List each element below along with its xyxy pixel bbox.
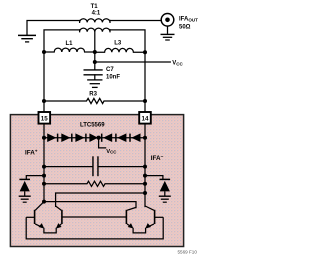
node pin15 collector junction [42,200,46,204]
node pin15 capacitor row junction [42,165,46,169]
svg-text:L3: L3 [114,41,122,47]
wire C7 to ground [94,75,96,80]
svg-text:IFAOUT: IFAOUT [179,17,198,23]
transformer T1 secondary winding [80,28,110,32]
diode D7 [130,133,141,142]
IC die block U1 LTC5569 (shaded area) [10,115,183,247]
node L3 right junction [143,50,147,54]
wire right ESD clamp stub [145,176,163,180]
wire VCC supply line [95,61,171,63]
wire T1 primary right lead to output connector [110,20,161,22]
node L1 left junction [42,50,46,54]
ground below connector [161,34,175,40]
diode D6 [116,133,127,142]
node pin14 cross line junction [143,191,147,195]
diode D3 [75,133,86,142]
svg-text:LTC5569: LTC5569 [80,123,105,129]
wire cross line from pin 15 with riser to QC collector [44,202,136,208]
wire T1 center tap down to C7 [94,32,96,70]
pin 14 box and number [139,112,151,124]
node pin15 ESD stub junction [42,174,46,178]
wire T1 primary left lead to ground [27,21,80,36]
svg-text:5569 F10: 5569 F10 [178,250,198,255]
node pin14 ESD stub junction [143,174,147,178]
wire left ESD clamp stub [26,176,44,180]
ground top-left [18,35,36,42]
wire internal capacitor row [44,166,92,168]
inductor L3 [95,48,145,52]
node center tap VCC junction [93,60,97,64]
node pin15 diode row junction [42,136,46,140]
svg-text:14: 14 [142,115,149,122]
connector J1 IFA OUT coax jack [161,13,174,33]
transformer T1 primary winding [80,19,110,23]
node diode chains mid VCC junction [97,136,101,140]
svg-text:50Ω: 50Ω [179,25,191,31]
svg-text:L1: L1 [66,41,74,47]
resistor R3 [44,98,145,103]
resistor internal row [44,181,145,186]
node pin14 capacitor row junction [143,165,147,169]
wire T1 secondary left lead down to pin 15 [44,30,80,112]
node pin14 resistor row junction [143,182,147,186]
ground below left ESD clamp [19,196,31,202]
transistor Q2 left-inner [56,206,62,227]
diode D8 ESD clamp left [19,179,30,196]
wire ESD diode row [44,137,145,139]
svg-text:C7: C7 [106,67,114,73]
node pin14 diode row junction [143,136,147,140]
svg-text:T1: T1 [91,4,99,10]
svg-text:10nF: 10nF [106,74,120,80]
svg-text:VCC: VCC [106,149,117,155]
transistor Q3 right-inner [126,207,136,227]
wire T1 secondary right lead down to pin 14 [110,30,145,112]
node center tap L1-L3 junction [93,50,97,54]
ground below C7 [88,80,102,88]
node R3 right junction [143,99,147,103]
inductor L1 [44,48,95,52]
diode D4 [89,133,98,142]
wire pin 14 vertical into die [144,124,146,207]
wire outer base loop Q1-Q4 [26,217,163,239]
wire pin 15 vertical into die [43,124,45,202]
wire inner bases Q2-Q3 [62,216,127,218]
diode D1 (left chain) [47,133,57,142]
wire cross line to pin 14 with riser to QB collector [56,193,145,206]
wire emitter U left pair [44,228,56,233]
diode D9 ESD clamp right [160,179,171,196]
capacitor C7 plates [84,70,102,75]
svg-text:R3: R3 [89,92,97,98]
diode D5 (right chain) [102,133,113,142]
diode D2 [61,133,72,142]
node R3 left junction [42,99,46,103]
wire VCC tap from diode row mid node [99,138,106,148]
svg-text:VCC: VCC [172,60,183,66]
svg-text:15: 15 [41,115,48,122]
capacitor internal plates [93,156,98,176]
transistor Q1 left-outer [26,202,44,228]
node pin15 resistor row junction [42,182,46,186]
transistor Q4 right-outer [145,206,163,227]
ground below right ESD clamp [159,196,171,202]
pin 15 box and number [39,112,51,124]
svg-text:4:1: 4:1 [92,11,101,17]
wire emitter U right pair [133,228,146,233]
